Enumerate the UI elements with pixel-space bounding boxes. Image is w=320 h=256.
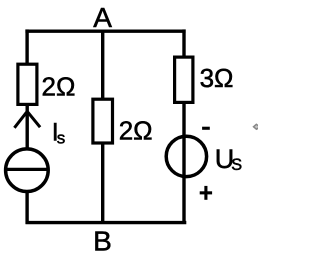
wire: bottom horizontal B-rail (26, 221, 187, 224)
resistor R3 3Ω (right branch) (175, 57, 193, 102)
svg-text:2Ω: 2Ω (119, 115, 153, 145)
svg-text:A: A (93, 2, 112, 33)
resistor R1 2Ω (left branch) (18, 64, 37, 104)
wire: top horizontal A-rail (25, 30, 185, 33)
wire: middle branch top vertical (101, 31, 104, 100)
wire: middle branch bottom vertical (101, 143, 104, 224)
gray marker at right edge (252, 123, 258, 130)
wire: arrow shaft between R1 and current source (26, 104, 29, 149)
current source Is horizontal bar (6, 168, 48, 171)
svg-text:B: B (93, 225, 112, 256)
polarity plus sign of Us (200, 186, 212, 200)
svg-text:2Ω: 2Ω (42, 71, 76, 101)
wire: right branch vertical through voltage source (182, 102, 185, 224)
wire: left branch bottom vertical (25, 191, 28, 224)
current source Is circle (6, 149, 49, 192)
resistor R2 2Ω (middle branch) (93, 99, 113, 143)
polarity minus sign of Us (202, 127, 210, 130)
wire: left branch top vertical (25, 29, 28, 64)
svg-text:3Ω: 3Ω (200, 63, 234, 93)
voltage source Us circle (166, 136, 206, 176)
wire: right branch top vertical (182, 29, 185, 57)
current source Is arrowhead (points up) (14, 111, 40, 127)
